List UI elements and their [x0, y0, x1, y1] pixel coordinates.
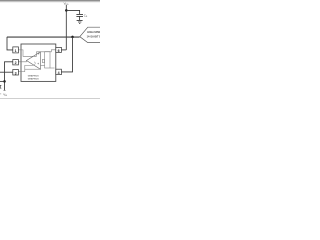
svg-text:6: 6: [58, 49, 60, 53]
wire to pin 3 from left: [0, 71, 13, 73]
resistor R internal box: [45, 52, 50, 68]
pin 6: [56, 47, 62, 52]
svg-text:1: 1: [15, 49, 17, 53]
callout annotation: [80, 27, 100, 42]
svg-text:GRAPHICS: GRAPHICS: [28, 74, 39, 77]
wire output down from rail to pin 4: [61, 37, 72, 72]
junction dot on rail: [71, 36, 74, 39]
wire input to pin 2: [5, 62, 13, 91]
wire internal top to pin 6: [36, 50, 55, 52]
internal curve mark: [34, 62, 35, 65]
footer rule: [0, 98, 100, 100]
junction dot VDD: [65, 9, 68, 12]
pin 3: [13, 70, 19, 76]
wire input branch left: [0, 80, 5, 82]
svg-text:GRAPHICS: GRAPHICS: [28, 77, 39, 80]
op-amp input sign bottom: [37, 63, 39, 65]
svg-text:14-/16-BIT D: 14-/16-BIT D: [87, 36, 100, 39]
wire feedback top rail: [7, 36, 80, 38]
junction dot input: [3, 80, 6, 83]
wire pin2 internal to triangle tip: [18, 61, 26, 62]
top window bar: [0, 0, 100, 1]
op-amp input sign top: [38, 53, 40, 55]
wire rail down to pin 1: [7, 37, 13, 50]
op-amp U1 triangle: [27, 52, 41, 70]
wire to bypass cap: [66, 10, 79, 14]
pin 1: [13, 47, 19, 53]
wire pin3 internal: [18, 65, 33, 71]
pin 4: [56, 69, 62, 74]
svg-text:HIGH-SPEED: HIGH-SPEED: [87, 31, 100, 34]
wire VDD into pin 6: [61, 49, 66, 51]
svg-text:4: 4: [58, 71, 60, 75]
op-amp U1 package body: [21, 44, 56, 81]
capacitor CS: [76, 14, 83, 16]
pin 2: [13, 60, 19, 65]
svg-text:3: 3: [15, 72, 17, 76]
wire triangle to resistor: [41, 65, 45, 67]
wire internal lower: [25, 68, 41, 70]
wire VDD vertical: [65, 5, 67, 50]
internal small box: [42, 60, 44, 63]
end tick: [4, 89, 6, 91]
wire cap to ground: [79, 16, 81, 20]
wire pin1 internal: [18, 50, 36, 56]
svg-text:2: 2: [15, 61, 17, 65]
ground: [77, 20, 83, 23]
wire internal resistor bottom: [50, 67, 55, 69]
clipped component left edge: [0, 85, 1, 88]
